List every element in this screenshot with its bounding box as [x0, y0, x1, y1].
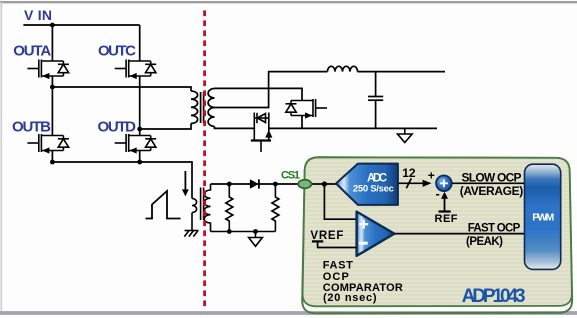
ground chassis CT primary: [184, 231, 198, 237]
wire fast OCP output: [394, 233, 524, 235]
svg-text:(AVERAGE): (AVERAGE): [460, 184, 524, 198]
current direction arrow: [182, 171, 189, 196]
ground output: [398, 128, 413, 142]
op-amp fast OCP comparator U3: [357, 212, 395, 256]
junction dot R1 bottom: [227, 229, 232, 234]
svg-text:OUTD: OUTD: [98, 119, 137, 136]
transformer T1 primary winding: [191, 91, 198, 124]
resistor R1: [226, 184, 233, 232]
svg-text:CS1: CS1: [281, 170, 300, 182]
junction dot VIN-OUTA: [50, 23, 55, 28]
summing junction U2: [436, 176, 452, 192]
svg-text:PWM: PWM: [532, 211, 554, 223]
wire OUTA source to OUTB drain: [51, 76, 53, 136]
wire bridge bottom rail: [52, 162, 192, 199]
inductor L1: [328, 66, 358, 71]
svg-text:12: 12: [402, 166, 416, 180]
wire secondary center tap to output rail: [215, 72, 328, 108]
svg-text:REF: REF: [435, 213, 458, 225]
junction dot OUTD source: [137, 160, 142, 165]
wire SR2 source: [301, 116, 303, 129]
svg-text:(20 nsec): (20 nsec): [323, 292, 377, 304]
transistor OUTD: [115, 134, 157, 154]
resistor R2: [272, 184, 279, 232]
svg-text:VREF: VREF: [310, 230, 343, 242]
svg-text:V IN: V IN: [24, 7, 52, 23]
svg-text:(PEAK): (PEAK): [466, 236, 503, 248]
node CS1 ellipse: [298, 180, 311, 189]
junction dot R2 top: [273, 182, 278, 187]
svg-text:ADP1043: ADP1043: [462, 286, 526, 307]
transistor OUTA: [27, 60, 69, 80]
PWM block: [525, 164, 561, 269]
junction dot R1 top: [227, 182, 232, 187]
junction dot A-leg midpoint: [50, 85, 55, 90]
wire OUTC drain: [139, 25, 141, 61]
wire OUTB source: [51, 151, 53, 163]
svg-text:+: +: [428, 168, 435, 182]
junction dot OUTB source: [50, 160, 55, 165]
svg-text:OUTC: OUTC: [98, 43, 136, 60]
svg-text:FAST OCP: FAST OCP: [468, 223, 521, 235]
wire ADC output bus: [398, 178, 432, 188]
wire secondary top tap to SR2 drain: [215, 88, 303, 100]
transformer CT secondary winding: [204, 184, 210, 232]
VREF symbol and wire: [312, 241, 357, 247]
transformer T1 core: [200, 92, 202, 123]
transistor SR2 synchronous rectifier: [286, 99, 328, 119]
wire CT primary lower: [191, 213, 193, 231]
svg-text:-: -: [436, 186, 440, 201]
wire OUTA drain: [51, 25, 53, 61]
op-amp ADC block: [336, 164, 398, 205]
diode D2: [250, 179, 259, 189]
ADP1043 block border (outer): [302, 157, 572, 313]
svg-text:FAST: FAST: [323, 259, 353, 271]
wire primary top rail: [52, 87, 191, 91]
transistor OUTC: [115, 60, 157, 80]
wire CS1 to comparator plus input: [324, 184, 356, 219]
wire OUTC source to OUTD drain: [139, 76, 141, 136]
ADP1043 block body: [303, 157, 572, 306]
wire slow OCP output: [452, 182, 525, 184]
page bottom bar: [0, 311, 577, 315]
capacitor C1: [375, 72, 377, 97]
current waveform symbol: [146, 191, 181, 219]
wire CT secondary bottom: [211, 231, 276, 233]
svg-text:OUTB: OUTB: [12, 119, 51, 136]
transistor SR1 synchronous rectifier: [251, 113, 273, 153]
junction dot ground tap: [253, 229, 258, 234]
transformer CT primary winding on wire: [192, 199, 197, 213]
transformer CT core: [201, 188, 204, 221]
wire V IN rail: [23, 24, 139, 26]
red isolation boundary dashed line: [203, 10, 206, 308]
transformer T1 secondary winding: [208, 89, 214, 127]
page left border: [0, 2, 2, 313]
wire CS1 sense line: [211, 183, 337, 185]
svg-text:250 S/sec: 250 S/sec: [353, 183, 394, 194]
svg-text:OUTA: OUTA: [13, 43, 51, 60]
wire secondary bottom tap to SR1: [215, 127, 255, 129]
ground CT secondary: [249, 232, 263, 247]
page top border: [0, 1, 577, 3]
svg-text:SLOW OCP: SLOW OCP: [462, 170, 522, 184]
junction dot CS1 branch: [322, 181, 327, 186]
transistor OUTB: [27, 134, 69, 154]
wire primary bottom rail: [140, 124, 191, 130]
wire OUTD source: [139, 151, 141, 163]
REF input arrow: [439, 192, 451, 212]
wire output top rail: [358, 71, 446, 73]
wire output return rail: [269, 127, 437, 129]
junction dot C-D midpoint: [137, 127, 142, 132]
